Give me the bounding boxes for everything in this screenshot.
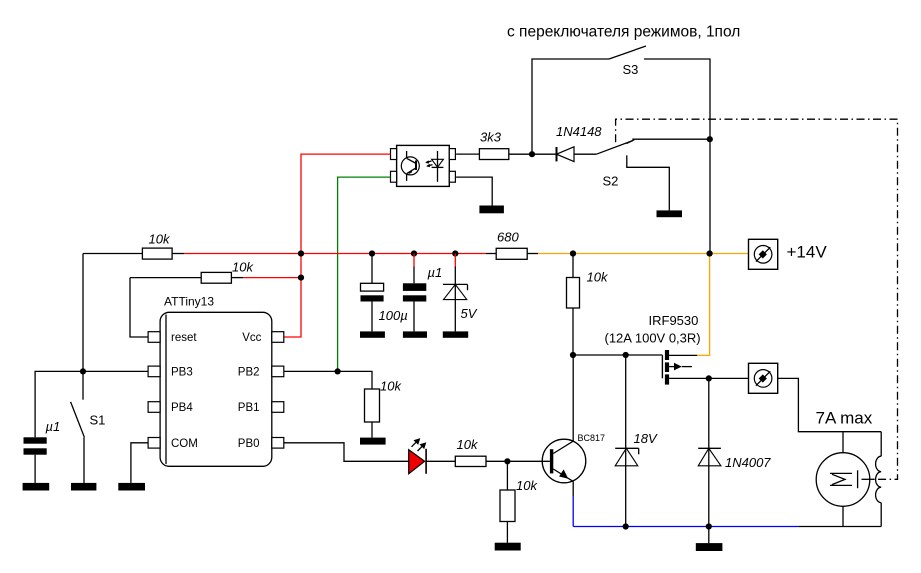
wire bbox=[625, 355, 627, 527]
MOSFET IRF9530 bbox=[605, 313, 749, 385]
wire bbox=[172, 253, 184, 255]
wire bbox=[34, 455, 36, 483]
svg-text:680: 680 bbox=[497, 230, 519, 245]
switch S3 bbox=[532, 46, 710, 254]
svg-text:S3: S3 bbox=[623, 62, 639, 77]
wire bbox=[708, 378, 710, 526]
ground bbox=[23, 483, 50, 491]
node 3k3/1N4148/S3 bbox=[529, 151, 535, 157]
wire emitter bbox=[553, 469, 573, 481]
wire bbox=[82, 371, 84, 399]
wire blue ground rail bbox=[573, 526, 798, 528]
svg-text:S2: S2 bbox=[603, 174, 619, 189]
ground bbox=[360, 331, 385, 337]
capacitor µ1 (bypass) bbox=[403, 254, 442, 332]
wire bottom return bbox=[798, 526, 881, 528]
resistor 10k (PB2 pulldown) bbox=[284, 371, 403, 437]
node red rail junctions bbox=[298, 250, 304, 256]
switch S2 bbox=[596, 139, 710, 210]
terminal +14V bbox=[749, 239, 778, 269]
resistor 10k (reset pull-up) bbox=[130, 260, 301, 284]
wire bbox=[880, 503, 882, 527]
wire bbox=[83, 437, 85, 483]
wire blade bbox=[596, 141, 633, 155]
wire bbox=[231, 277, 243, 279]
ground bbox=[443, 331, 468, 337]
wire bbox=[572, 254, 574, 278]
wire bbox=[413, 302, 415, 332]
svg-text:10k: 10k bbox=[457, 437, 479, 452]
wire bbox=[506, 522, 508, 543]
svg-text:3k3: 3k3 bbox=[480, 130, 502, 145]
wire bbox=[509, 153, 557, 155]
svg-text:ATTiny13: ATTiny13 bbox=[164, 295, 214, 309]
node PB3/S1 bbox=[80, 368, 86, 374]
wire opto emitter to ground bbox=[456, 177, 492, 205]
svg-text:с переключателя режимов, 1пол: с переключателя режимов, 1пол bbox=[507, 24, 740, 41]
wire bbox=[413, 254, 415, 267]
capacitor 100µ bbox=[361, 254, 408, 332]
node drain junction bbox=[706, 375, 712, 381]
wire bbox=[456, 153, 479, 155]
wire bbox=[83, 253, 142, 255]
wire bbox=[644, 59, 710, 254]
wire gate node bbox=[573, 354, 662, 356]
motor M bbox=[816, 453, 874, 507]
svg-text:reset: reset bbox=[171, 332, 197, 344]
node blue rail junctions bbox=[623, 523, 629, 529]
wire source bbox=[669, 354, 697, 356]
wire collector bbox=[553, 355, 573, 454]
node gate junctions bbox=[570, 352, 576, 358]
wire bbox=[486, 460, 550, 462]
resistor 10k (base pulldown) bbox=[500, 461, 538, 542]
mechanical link dash-dot bbox=[616, 119, 898, 479]
resistor 10k (gate pull-up) bbox=[567, 254, 609, 356]
node orange rail junctions bbox=[570, 250, 576, 256]
resistor 10k (LED series) bbox=[426, 437, 550, 467]
wire bbox=[632, 138, 710, 140]
svg-text:1N4007: 1N4007 bbox=[725, 455, 771, 470]
wire PB0 net bbox=[284, 443, 409, 462]
wire bbox=[527, 253, 538, 255]
wire bbox=[426, 460, 455, 462]
body pin bbox=[669, 366, 674, 368]
wire bbox=[371, 254, 373, 284]
wire orange down to MOSFET source bbox=[697, 254, 709, 356]
switch S1 bbox=[71, 371, 106, 483]
wire bbox=[371, 302, 373, 332]
wire bbox=[880, 432, 882, 457]
svg-text:1N4148: 1N4148 bbox=[556, 124, 602, 139]
node S2 common junction bbox=[707, 136, 713, 142]
svg-text:Vcc: Vcc bbox=[242, 332, 261, 344]
svg-text:BC817: BC817 bbox=[578, 433, 606, 443]
wire output to motor loop bbox=[778, 378, 882, 431]
svg-text:PB4: PB4 bbox=[171, 402, 193, 414]
wire left vertical to PB3 bbox=[82, 254, 84, 372]
svg-text:PB3: PB3 bbox=[171, 367, 193, 379]
svg-text:PB0: PB0 bbox=[238, 438, 260, 450]
wire green from optocoupler to PB2 bbox=[338, 177, 391, 371]
IC ATTiny13 bbox=[148, 295, 284, 467]
ground bbox=[657, 210, 683, 217]
svg-text:10k: 10k bbox=[232, 260, 254, 275]
wire bbox=[572, 481, 574, 496]
wire bbox=[371, 422, 373, 438]
svg-text:10k: 10k bbox=[516, 478, 538, 493]
diode 1N4007 bbox=[698, 378, 771, 526]
wire orange +14V rail bbox=[538, 253, 748, 255]
wire bbox=[130, 277, 201, 279]
svg-text:PB1: PB1 bbox=[238, 402, 260, 414]
svg-text:18V: 18V bbox=[634, 431, 658, 446]
LED indicator bbox=[409, 438, 427, 474]
wire red +5V rail bbox=[184, 253, 486, 255]
node base junction bbox=[504, 458, 510, 464]
resistor 3k3 bbox=[456, 130, 509, 160]
svg-text:5V: 5V bbox=[461, 306, 478, 321]
wire red Vcc net from optocoupler bbox=[284, 154, 391, 337]
wire ground stem bbox=[708, 527, 710, 544]
svg-text:COM: COM bbox=[171, 438, 198, 450]
wire bbox=[454, 254, 456, 267]
wire motor top drop bbox=[842, 432, 844, 453]
svg-text:(12A 100V 0,3R): (12A 100V 0,3R) bbox=[605, 331, 701, 346]
ground bbox=[118, 483, 145, 491]
svg-text:100µ: 100µ bbox=[379, 308, 408, 323]
wire bbox=[532, 59, 609, 154]
wire PB3 net bbox=[35, 371, 148, 437]
svg-text:PB2: PB2 bbox=[238, 367, 260, 379]
wire COM to ground bbox=[131, 443, 148, 483]
svg-text:IRF9530: IRF9530 bbox=[649, 313, 699, 328]
ground bbox=[495, 543, 521, 551]
svg-text:+14V: +14V bbox=[787, 243, 828, 262]
wire reset bbox=[130, 278, 148, 337]
wire red bbox=[243, 277, 301, 279]
wire bbox=[572, 308, 574, 355]
wire motor bottom bbox=[842, 506, 844, 526]
diode 1N4148 bbox=[509, 124, 603, 162]
svg-text:µ1: µ1 bbox=[46, 419, 61, 434]
wire bbox=[609, 46, 646, 59]
optocoupler U1 bbox=[391, 145, 456, 186]
zener 18V bbox=[615, 355, 658, 527]
ground bbox=[403, 331, 427, 337]
wire bbox=[486, 253, 496, 255]
wire bbox=[506, 461, 508, 490]
capacitor µ1 (debounce) bbox=[24, 419, 61, 483]
svg-text:10k: 10k bbox=[149, 232, 171, 247]
ground bbox=[696, 543, 723, 551]
resistor 680 bbox=[486, 230, 538, 260]
node PB2/green bbox=[335, 368, 341, 374]
svg-text:10k: 10k bbox=[587, 270, 609, 285]
zener 5V bbox=[443, 254, 478, 332]
svg-text:7A max: 7A max bbox=[816, 409, 873, 428]
ground bbox=[360, 438, 386, 445]
resistor 10k (upper left) bbox=[83, 232, 184, 260]
inductor (field winding) bbox=[876, 432, 882, 527]
svg-text:S1: S1 bbox=[90, 413, 106, 428]
wire drain bbox=[669, 377, 748, 379]
wire NC contact to ground bbox=[627, 155, 670, 210]
ground bbox=[479, 206, 504, 214]
svg-text:10k: 10k bbox=[380, 379, 402, 394]
terminal output bbox=[749, 363, 778, 393]
ground bbox=[71, 483, 96, 491]
wire blade bbox=[71, 402, 85, 437]
wire bbox=[284, 371, 372, 389]
svg-text:µ1: µ1 bbox=[428, 265, 443, 280]
transistor BC817 bbox=[542, 355, 605, 527]
